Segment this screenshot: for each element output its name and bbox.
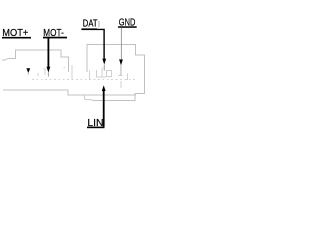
node MOT- underline: [43, 37, 67, 39]
wire GND leader: [120, 28, 122, 59]
node GND underline: [118, 26, 137, 28]
pin arrow LIN: [102, 85, 106, 91]
node DAT label tick: [98, 21, 100, 27]
pin slot MOT-: [43, 69, 45, 75]
pin slot GND: [118, 74, 127, 89]
node DAT underline and wire leader: [81, 28, 97, 30]
wire DAT pin tail: [103, 65, 105, 71]
node MOT+ underline: [2, 37, 31, 39]
connector housing outline left section: [2, 50, 136, 95]
pin arrow GND: [119, 59, 123, 65]
wire LIN leader: [103, 91, 105, 127]
dashed centerline: [32, 79, 137, 81]
wire MOT+ pin tail: [27, 73, 29, 75]
pin arrow DAT: [102, 59, 106, 65]
wire MOT- leader: [48, 38, 50, 67]
wire MOT- pin tail: [47, 73, 49, 77]
pin arrow MOT-: [47, 67, 51, 73]
connector housing outline right section: [87, 45, 145, 101]
svg-text:DAT: DAT: [83, 19, 98, 30]
pin slot DAT: [96, 68, 112, 78]
inner cavity lines middle: [64, 65, 90, 79]
node LIN underline: [87, 127, 105, 129]
wire GND pin tail: [120, 65, 122, 75]
connector latch tab bottom: [85, 95, 93, 100]
pin arrow MOT+: [26, 68, 30, 73]
pin slot MOT+: [37, 73, 39, 76]
